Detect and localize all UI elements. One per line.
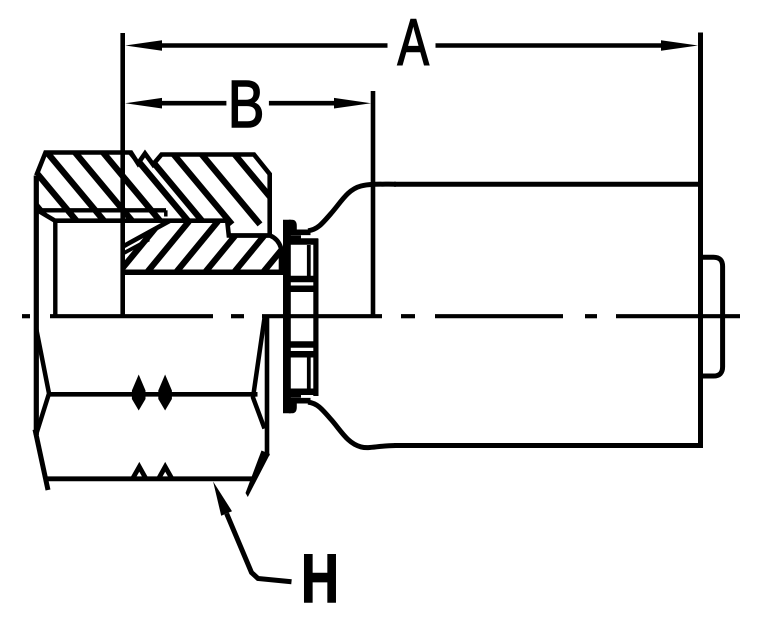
hex corner line upper bbox=[48, 392, 258, 397]
svg-text:B: B bbox=[228, 68, 265, 142]
nipple cone second line bbox=[124, 240, 149, 254]
dimension A left arrowhead bbox=[125, 40, 162, 51]
hex corner mark 2 bbox=[158, 375, 172, 411]
svg-text:A: A bbox=[398, 5, 430, 79]
hex bottom line bbox=[46, 476, 252, 481]
shell top edge bbox=[394, 182, 702, 187]
nut thread minor line bbox=[38, 208, 167, 212]
nipple outline bbox=[123, 221, 281, 272]
nut bore line bbox=[53, 221, 57, 315]
hex nut left edge bbox=[34, 176, 39, 436]
extension line left (A/B datum) bbox=[120, 33, 125, 316]
dimension A right arrowhead bbox=[661, 40, 698, 51]
collar flange bbox=[283, 220, 291, 414]
H leader line bbox=[227, 514, 292, 582]
shell lip bottom bars bbox=[283, 398, 311, 404]
collar serration inner line bottom bbox=[307, 357, 311, 389]
collar serration inner line top bbox=[307, 245, 311, 276]
hex right corner arcs bbox=[253, 318, 265, 429]
tube end cap bbox=[703, 257, 723, 376]
shell S-curve top bbox=[308, 184, 396, 231]
svg-text:H: H bbox=[301, 540, 339, 617]
H leader arrowhead bbox=[213, 482, 232, 516]
hex corner mark 1 bbox=[132, 375, 146, 411]
nipple bottom line bbox=[122, 270, 283, 276]
shell lip top bump bbox=[289, 220, 297, 232]
hex left corner arcs bbox=[36, 329, 49, 434]
dimension B left arrowhead bbox=[125, 98, 162, 109]
nut section outline bbox=[36, 153, 269, 236]
hex bottom-right chamfer bbox=[246, 451, 271, 498]
hex bottom-left chamfer bbox=[35, 430, 48, 491]
hex bottom peak 1 bbox=[133, 467, 147, 479]
extension line right (A, shell end) bbox=[698, 33, 703, 449]
nipple hatch bbox=[116, 221, 305, 276]
nut thread end tick bbox=[164, 210, 168, 216]
nut section hatch bbox=[0, 150, 317, 224]
dimension A line bbox=[160, 43, 663, 48]
hex bottom peak 2 bbox=[159, 467, 173, 479]
shell S-curve bottom bbox=[308, 402, 396, 448]
collar serration right edge bbox=[313, 239, 318, 396]
shell lip bottom bump bbox=[289, 401, 297, 413]
extension line B right bbox=[371, 91, 376, 316]
dimension B right arrowhead bbox=[334, 98, 371, 109]
dimension B line bbox=[160, 101, 336, 106]
collar serration bars bbox=[289, 242, 318, 392]
hex right face bbox=[265, 318, 270, 456]
centerline bbox=[22, 314, 740, 318]
shell bottom edge bbox=[394, 443, 702, 448]
shell lip top bars bbox=[283, 229, 311, 235]
